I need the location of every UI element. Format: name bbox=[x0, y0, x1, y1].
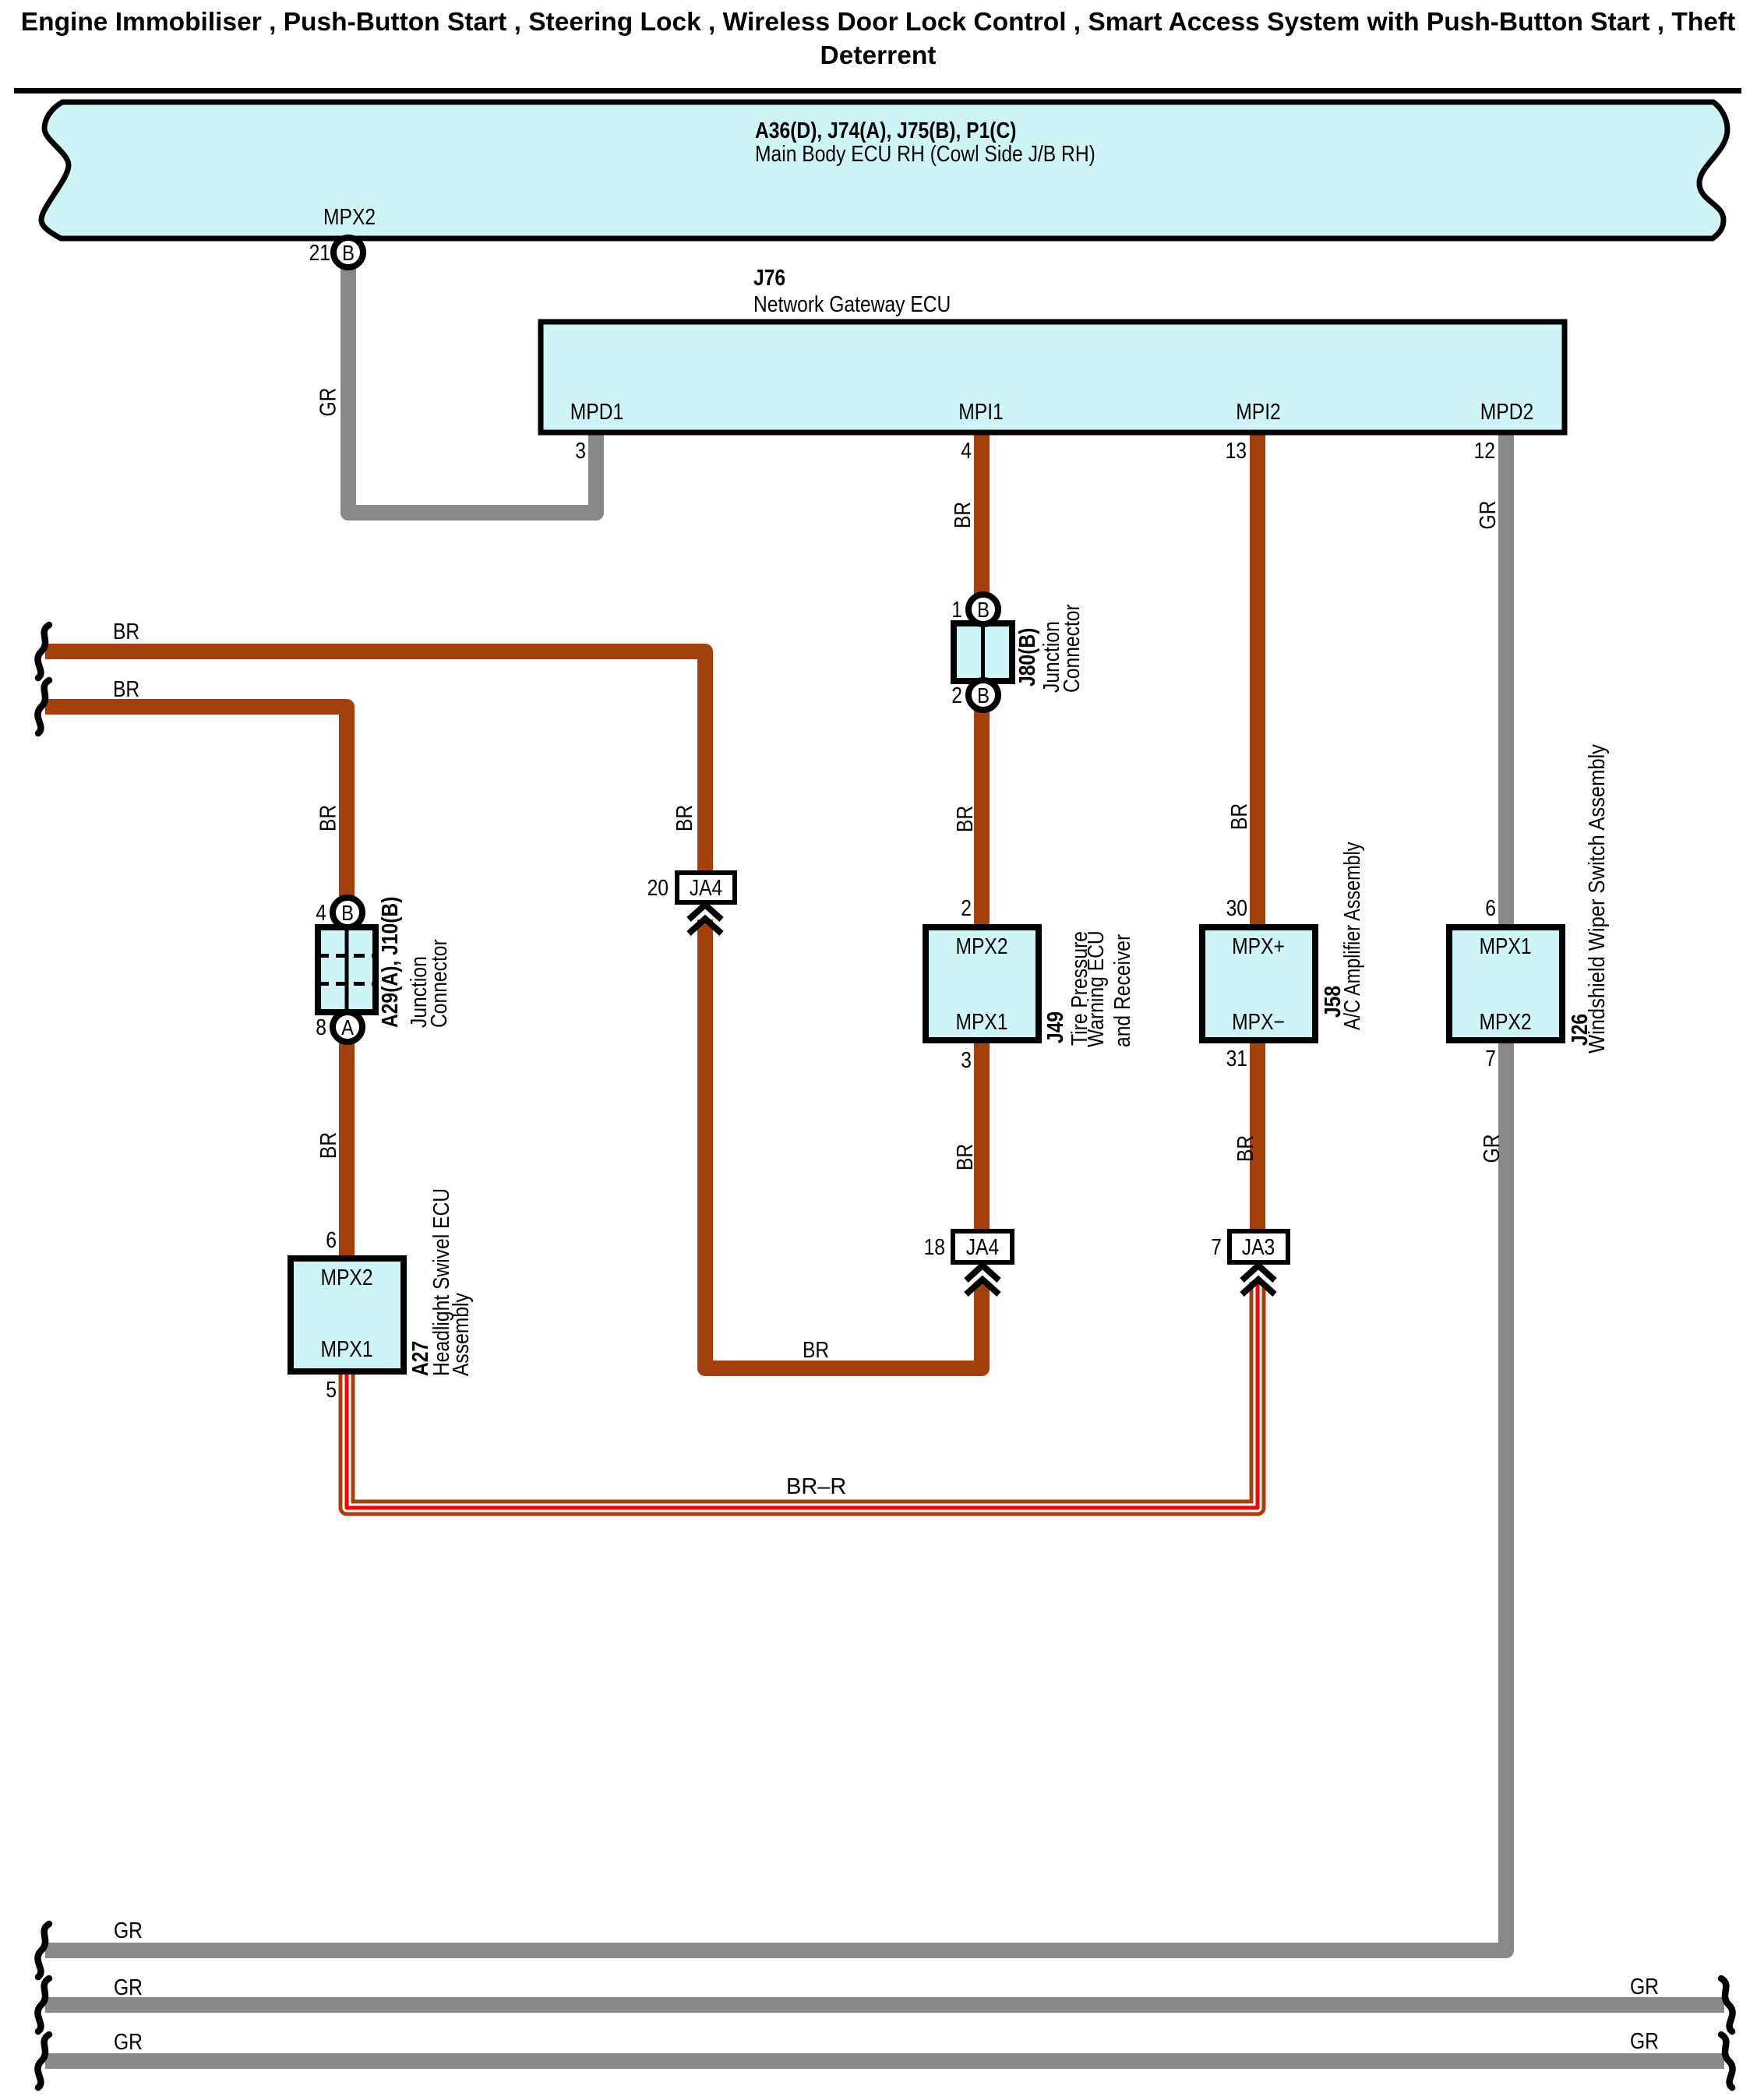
A29 pin A circle bbox=[333, 1012, 362, 1042]
svg-text:GR: GR bbox=[1479, 1135, 1504, 1163]
svg-text:GR: GR bbox=[114, 1918, 143, 1943]
svg-text:BR: BR bbox=[1233, 1135, 1258, 1162]
J80 pin B bottom circle bbox=[968, 680, 998, 710]
svg-text:A/C Amplifier Assembly: A/C Amplifier Assembly bbox=[1339, 842, 1364, 1030]
title rule bbox=[14, 88, 1741, 94]
break squiggle GR bottom 2 right bbox=[1721, 1978, 1733, 2031]
svg-text:GR: GR bbox=[316, 388, 340, 417]
wire GR from J76 MPD2 pin 12 down through J26, to bottom left break bbox=[45, 432, 1506, 1950]
wire BR from J76 MPI2 pin 13 down to J58 pin 30 and on to JA3 pin 7 bbox=[1250, 432, 1265, 1233]
svg-text:B: B bbox=[977, 683, 990, 708]
JA3-7 chevron bbox=[1242, 1265, 1275, 1294]
svg-text:GR: GR bbox=[1475, 501, 1500, 530]
svg-text:BR: BR bbox=[952, 1144, 977, 1170]
svg-text:BR: BR bbox=[952, 806, 977, 832]
svg-text:Deterrent: Deterrent bbox=[820, 41, 937, 70]
svg-text:and Receiver: and Receiver bbox=[1110, 934, 1134, 1047]
svg-text:BR: BR bbox=[113, 619, 139, 644]
wire GR from banner pin B21 down and right to J76 MPD1 pin 3 bbox=[348, 260, 596, 513]
svg-text:GR: GR bbox=[1630, 1974, 1659, 1999]
svg-text:MPI1: MPI1 bbox=[958, 399, 1004, 424]
svg-text:Windshield Wiper Switch Assemb: Windshield Wiper Switch Assembly bbox=[1584, 744, 1609, 1054]
svg-text:MPX1: MPX1 bbox=[1479, 934, 1531, 958]
svg-text:30: 30 bbox=[1226, 895, 1247, 920]
svg-text:BR: BR bbox=[1226, 803, 1251, 830]
svg-text:Engine Immobiliser , Push-Butt: Engine Immobiliser , Push-Button Start ,… bbox=[21, 8, 1735, 37]
svg-text:A36(D), J74(A), J75(B), P1(C): A36(D), J74(A), J75(B), P1(C) bbox=[755, 118, 1017, 143]
svg-text:MPD2: MPD2 bbox=[1480, 399, 1533, 424]
ECU box J58 A/C Amplifier Assembly bbox=[1202, 927, 1315, 1040]
JA4-18 chevron bbox=[966, 1265, 999, 1294]
svg-text:18: 18 bbox=[924, 1234, 945, 1259]
switch box J26 Windshield Wiper Switch Assembly bbox=[1449, 927, 1562, 1040]
svg-text:6: 6 bbox=[1485, 895, 1496, 920]
svg-text:A: A bbox=[341, 1015, 354, 1039]
svg-text:MPI2: MPI2 bbox=[1236, 399, 1281, 424]
wire GR pass-through 2 bbox=[45, 1997, 1724, 2013]
svg-text:J49: J49 bbox=[1043, 1011, 1067, 1043]
break squiggle GR bottom 3 left bbox=[37, 2035, 49, 2088]
svg-text:MPX2: MPX2 bbox=[955, 934, 1007, 958]
svg-text:MPX1: MPX1 bbox=[955, 1009, 1007, 1034]
svg-text:JA3: JA3 bbox=[1242, 1234, 1275, 1259]
wire BR-R from A27 pin 5 right along y1935 and up to JA3-7 chevron bbox=[347, 1282, 1258, 1508]
svg-text:5: 5 bbox=[326, 1377, 337, 1402]
svg-text:GR: GR bbox=[1630, 2028, 1659, 2053]
wire BR from below JA4-18 chevron down, left along y1756 to x905, up to JA4-20 chevron bbox=[705, 919, 982, 1368]
wire GR pass-through 3 bbox=[45, 2053, 1724, 2069]
break squiggle BR line 2 bbox=[37, 680, 49, 733]
svg-text:Network Gateway ECU: Network Gateway ECU bbox=[753, 291, 951, 316]
J80 pin B top circle bbox=[968, 595, 998, 624]
svg-text:BR: BR bbox=[672, 805, 697, 831]
wire BR from J49 pin 3 down to JA4 pin 18 bbox=[974, 1036, 990, 1233]
junction connector A29(A)/J10(B) bbox=[318, 927, 376, 1012]
svg-text:A29(A), J10(B): A29(A), J10(B) bbox=[377, 897, 402, 1028]
ECU box A27 Headlight Swivel ECU Assembly bbox=[291, 1258, 404, 1371]
svg-text:13: 13 bbox=[1226, 438, 1247, 463]
svg-text:MPX2: MPX2 bbox=[320, 1265, 372, 1290]
break squiggle GR bottom 2 left bbox=[37, 1978, 49, 2031]
svg-text:8: 8 bbox=[316, 1015, 326, 1039]
A29 pin B circle bbox=[333, 898, 362, 927]
svg-text:Assembly: Assembly bbox=[448, 1293, 473, 1376]
svg-text:BR: BR bbox=[803, 1337, 829, 1362]
svg-text:BR: BR bbox=[316, 1132, 340, 1159]
svg-text:7: 7 bbox=[1211, 1234, 1222, 1259]
svg-text:BR–R: BR–R bbox=[786, 1474, 846, 1499]
break squiggle GR bottom 3 right bbox=[1721, 2035, 1733, 2088]
svg-text:31: 31 bbox=[1226, 1046, 1247, 1071]
svg-text:B: B bbox=[342, 240, 355, 265]
svg-text:J76: J76 bbox=[753, 265, 785, 290]
junction connector J80(B) bbox=[954, 623, 1012, 681]
svg-text:3: 3 bbox=[575, 438, 586, 463]
wire BR from J76 MPI1 pin 4 down through J80 to J49 pin 2 bbox=[974, 432, 990, 931]
break squiggle BR line 1 bbox=[37, 625, 49, 678]
junction block JA4 pin 18 bbox=[953, 1231, 1012, 1262]
svg-text:GR: GR bbox=[114, 1975, 143, 1999]
svg-text:2: 2 bbox=[961, 895, 972, 920]
JA4-20 chevron bbox=[689, 905, 721, 934]
svg-text:B: B bbox=[341, 900, 354, 925]
svg-text:4: 4 bbox=[961, 438, 972, 463]
svg-text:GR: GR bbox=[114, 2029, 143, 2054]
svg-text:20: 20 bbox=[647, 875, 669, 900]
svg-text:7: 7 bbox=[1485, 1046, 1496, 1071]
svg-text:4: 4 bbox=[316, 900, 326, 925]
svg-text:6: 6 bbox=[326, 1227, 337, 1252]
wire BR break-line 2 from left edge down to junction connector A29/J10 and on to A27 pin 6 bbox=[45, 707, 347, 1260]
svg-text:MPX−: MPX− bbox=[1232, 1009, 1285, 1034]
svg-text:MPX2: MPX2 bbox=[1479, 1009, 1531, 1034]
svg-text:J80(B): J80(B) bbox=[1014, 628, 1039, 686]
junction block JA4 pin 20 bbox=[677, 873, 735, 902]
break squiggle GR bottom 1 left bbox=[37, 1924, 49, 1977]
banner Main Body ECU RH (Cowl Side J/B RH) bbox=[41, 102, 1727, 238]
pin B21 circle on banner bbox=[333, 238, 363, 267]
ECU box J76 bbox=[541, 322, 1565, 432]
svg-text:BR: BR bbox=[950, 502, 975, 528]
svg-text:JA4: JA4 bbox=[966, 1234, 999, 1259]
svg-text:2: 2 bbox=[951, 683, 962, 708]
svg-text:Connector: Connector bbox=[426, 939, 451, 1028]
svg-text:21: 21 bbox=[309, 240, 330, 265]
svg-text:Connector: Connector bbox=[1059, 604, 1084, 693]
svg-text:Warning ECU: Warning ECU bbox=[1083, 930, 1108, 1047]
ECU box J49 Tire Pressure Warning ECU and Receiver bbox=[926, 927, 1039, 1040]
svg-text:MPX2: MPX2 bbox=[323, 204, 376, 229]
svg-text:BR: BR bbox=[316, 805, 340, 831]
svg-text:3: 3 bbox=[961, 1047, 972, 1072]
junction block JA3 pin 7 bbox=[1230, 1231, 1288, 1262]
svg-text:B: B bbox=[977, 597, 990, 622]
svg-text:Main Body ECU RH (Cowl Side J/: Main Body ECU RH (Cowl Side J/B RH) bbox=[755, 141, 1095, 166]
wire BR break-line 1 from left edge to JA4-20 bbox=[45, 651, 705, 874]
svg-text:JA4: JA4 bbox=[690, 875, 722, 900]
svg-text:MPD1: MPD1 bbox=[570, 399, 623, 424]
svg-text:MPX1: MPX1 bbox=[320, 1336, 372, 1361]
svg-text:MPX+: MPX+ bbox=[1232, 934, 1285, 958]
svg-text:12: 12 bbox=[1474, 438, 1495, 463]
svg-text:1: 1 bbox=[951, 597, 962, 622]
svg-text:BR: BR bbox=[113, 676, 139, 701]
